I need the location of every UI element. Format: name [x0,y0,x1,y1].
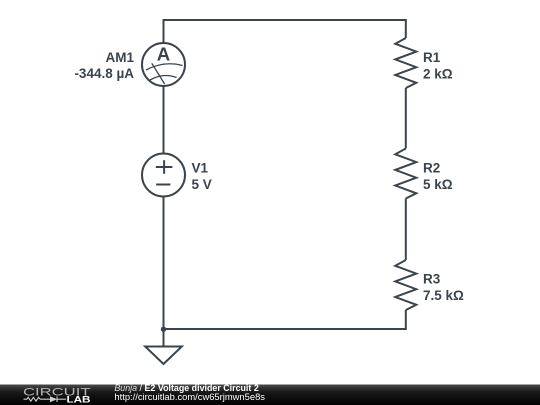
ammeter AM1 [142,43,185,86]
wire R2 to R3 [405,199,407,261]
wire node to ground [163,329,165,347]
svg-text:R3: R3 [423,271,441,286]
svg-text:7.5 kΩ: 7.5 kΩ [423,288,464,303]
resistor R1 [395,38,416,88]
footer bar [0,385,540,405]
svg-text:2 kΩ: 2 kΩ [423,67,453,82]
svg-text:AM1: AM1 [105,50,134,65]
svg-text:V1: V1 [192,160,209,175]
ground [145,347,182,365]
svg-text:LAB: LAB [67,394,91,405]
svg-text:R2: R2 [423,160,440,175]
svg-text:5 kΩ: 5 kΩ [423,177,453,192]
svg-text:-344.8 µA: -344.8 µA [74,66,134,81]
svg-text:5 V: 5 V [192,177,212,192]
svg-text:http://circuitlab.com/cw65rjmw: http://circuitlab.com/cw65rjmwn5e8s [114,391,265,402]
voltage source V1 [142,154,185,197]
wire top: ammeter top up, across, down to R1 [164,20,406,43]
resistor R2 [395,149,416,199]
logo resistor-diode symbol [24,396,67,402]
wire R1 to R2 [405,88,407,149]
node junction dot [161,327,166,332]
wire V1 bottom to ground node [163,196,165,329]
wire ammeter bottom to V1 top [163,86,165,153]
resistor R3 [395,260,416,310]
svg-text:A: A [157,44,170,65]
wire bottom: node to bottom-right corner up to R3 [164,310,406,329]
svg-text:R1: R1 [423,50,441,65]
